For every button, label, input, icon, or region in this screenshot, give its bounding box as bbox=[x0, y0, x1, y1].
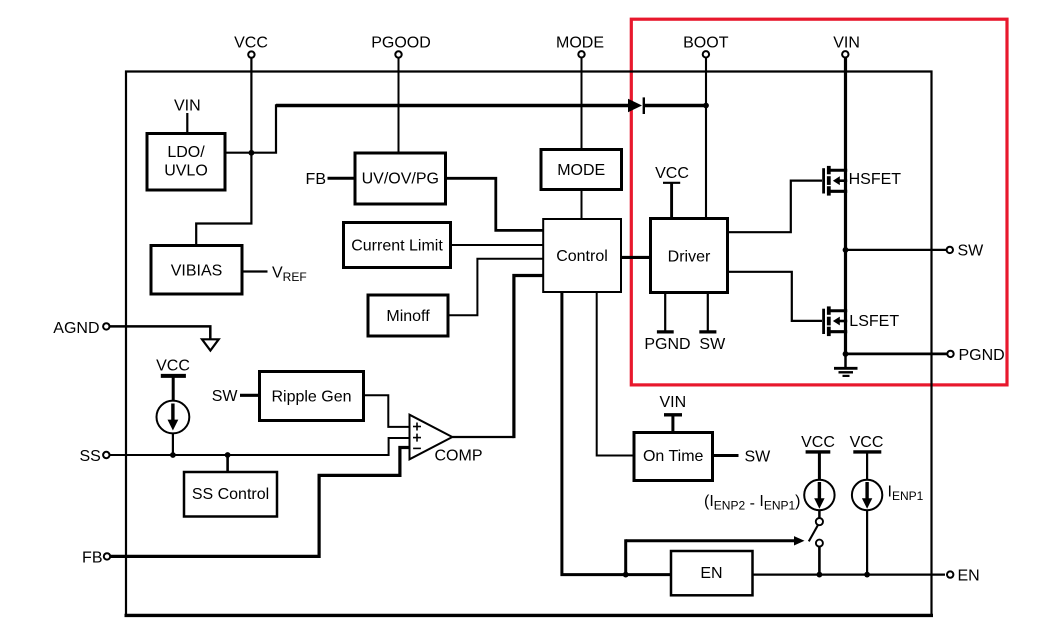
wire PGND node to PGND terminal bbox=[846, 352, 948, 355]
ground arrow (open triangle) bbox=[202, 339, 219, 350]
junction EN-input/arrow bbox=[623, 572, 629, 578]
junction diode/BOOT bbox=[703, 103, 709, 109]
pin PGND stub under Driver bbox=[644, 293, 690, 354]
svg-text:VIN: VIN bbox=[833, 35, 860, 52]
svg-text:SW: SW bbox=[699, 336, 726, 353]
svg-text:VCC: VCC bbox=[850, 434, 884, 451]
block VIBIAS bbox=[151, 246, 242, 295]
wire AGND to analog ground arrow bbox=[110, 326, 211, 339]
wire VCC vertical down to junction and VIBIAS elbow bbox=[196, 58, 251, 245]
svg-text:HSFET: HSFET bbox=[849, 171, 902, 188]
terminal PGOOD (top) bbox=[371, 35, 431, 58]
red highlight box (power stage) bbox=[631, 19, 1007, 385]
node VREF label bbox=[272, 265, 307, 285]
terminal AGND (left) bbox=[53, 320, 109, 337]
svg-text:VREF: VREF bbox=[272, 265, 307, 285]
svg-text:Control: Control bbox=[556, 248, 608, 265]
svg-text:EN: EN bbox=[700, 565, 722, 582]
transistor LSFET bbox=[824, 306, 900, 336]
terminal BOOT (top) bbox=[683, 35, 729, 58]
wire SS Control stub bbox=[226, 455, 229, 472]
wire MODE box to Control bbox=[581, 190, 583, 220]
svg-text:(IENP2 - IENP1): (IENP2 - IENP1) bbox=[704, 493, 801, 513]
svg-text:LDO/: LDO/ bbox=[167, 144, 205, 161]
block Current Limit bbox=[344, 223, 451, 268]
svg-text:FB: FB bbox=[306, 171, 326, 188]
wire SS line to comparator plus input bbox=[110, 438, 410, 455]
junction SW node bbox=[843, 247, 849, 253]
wire UV/OV/PG output to Control bbox=[446, 178, 544, 230]
svg-text:BOOT: BOOT bbox=[683, 35, 729, 52]
switch S1 bbox=[809, 510, 823, 575]
terminal MODE (top) bbox=[556, 35, 604, 58]
node VCC label above Driver bbox=[655, 165, 689, 219]
block LDO/UVLO bbox=[147, 134, 225, 191]
block Minoff bbox=[368, 295, 448, 336]
svg-text:UVLO: UVLO bbox=[164, 163, 208, 180]
svg-text:VCC: VCC bbox=[234, 35, 268, 52]
svg-text:VIBIAS: VIBIAS bbox=[171, 263, 223, 280]
svg-text:SS: SS bbox=[79, 448, 100, 465]
transistor HSFET bbox=[824, 166, 902, 196]
label (IENP2 - IENP1) bbox=[704, 493, 801, 513]
wire Driver to HSFET gate bbox=[728, 181, 823, 233]
wire VIBIAS to VREF bbox=[242, 270, 268, 272]
svg-text:MODE: MODE bbox=[557, 162, 605, 179]
terminal EN (right) bbox=[947, 567, 980, 584]
block EN bbox=[671, 551, 753, 595]
svg-text:Ripple Gen: Ripple Gen bbox=[271, 389, 351, 406]
svg-text:FB: FB bbox=[82, 550, 102, 567]
wire comparator output to Control bbox=[452, 276, 543, 439]
svg-text:SW: SW bbox=[745, 449, 772, 466]
junction SS/SS-Control bbox=[225, 452, 231, 458]
svg-text:VCC: VCC bbox=[156, 358, 190, 375]
terminal PGND (right) bbox=[947, 347, 1004, 364]
wire Control bottom to EN input bbox=[562, 292, 671, 575]
wire EN output to EN terminal bbox=[753, 573, 946, 575]
wire thick top bus to diode bbox=[276, 104, 631, 108]
block Control bbox=[543, 219, 621, 292]
node VCC label above IENP1 current source bbox=[850, 434, 884, 480]
svg-text:VIN: VIN bbox=[174, 98, 201, 115]
wire On Time output to SW label bbox=[713, 449, 772, 466]
label IENP1 bbox=[888, 484, 924, 504]
wire Minoff to Control bbox=[448, 259, 543, 316]
diode D1 (boot diode) bbox=[628, 97, 706, 114]
terminal VCC (top) bbox=[234, 35, 268, 58]
IC outer boundary box bbox=[125, 71, 934, 617]
block SS Control bbox=[184, 472, 277, 517]
svg-text:LSFET: LSFET bbox=[849, 313, 899, 330]
svg-text:Minoff: Minoff bbox=[386, 308, 430, 325]
ground symbol under LSFET bbox=[834, 354, 858, 376]
op-amp COMP comparator bbox=[410, 415, 483, 465]
wire PGOOD to UV/OV/PG bbox=[398, 58, 400, 153]
node VIN label above On Time bbox=[659, 394, 686, 433]
svg-text:PGND: PGND bbox=[644, 336, 690, 353]
wire Driver to LSFET gate bbox=[728, 272, 823, 321]
svg-text:PGND: PGND bbox=[959, 347, 1005, 364]
svg-text:VIN: VIN bbox=[659, 394, 686, 411]
pin SW stub under Driver bbox=[699, 293, 726, 354]
svg-text:VCC: VCC bbox=[655, 165, 689, 182]
svg-text:On Time: On Time bbox=[643, 448, 704, 465]
wire Ripple Gen to comparator plus input bbox=[364, 395, 410, 427]
svg-text:SW: SW bbox=[212, 388, 239, 405]
node VIN label above LDO bbox=[174, 98, 201, 134]
svg-text:VCC: VCC bbox=[801, 434, 835, 451]
svg-text:SS Control: SS Control bbox=[192, 486, 269, 503]
wire LDO output to VCC rail and top bus elbow bbox=[225, 105, 631, 152]
current source ISS (circle with down arrow) bbox=[157, 401, 190, 455]
current source IENP1 bbox=[852, 480, 882, 575]
wire Current Limit to Control bbox=[451, 244, 544, 246]
terminal FB (left bottom) bbox=[82, 550, 110, 567]
junction IENP1/EN-line bbox=[864, 572, 870, 578]
block On Time bbox=[634, 433, 713, 481]
wire Control bottom to On Time input bbox=[597, 292, 634, 456]
current source (IENP2-IENP1) bbox=[804, 480, 834, 510]
wire MODE terminal to MODE box bbox=[581, 58, 583, 150]
junction PGND node bbox=[843, 351, 849, 357]
svg-text:UV/OV/PG: UV/OV/PG bbox=[362, 171, 439, 188]
block Ripple Gen bbox=[260, 372, 364, 421]
junction VCC/LDO bbox=[249, 150, 255, 156]
svg-text:COMP: COMP bbox=[435, 448, 483, 465]
svg-text:SW: SW bbox=[958, 243, 985, 260]
terminal SW (right) bbox=[947, 243, 985, 260]
block MODE bbox=[541, 150, 622, 190]
svg-text:PGOOD: PGOOD bbox=[371, 35, 431, 52]
terminal SS (left) bbox=[79, 448, 109, 465]
svg-text:IENP1: IENP1 bbox=[888, 484, 924, 504]
node FB label into UV/OV/PG bbox=[306, 171, 355, 188]
block Driver bbox=[651, 219, 728, 293]
svg-text:Driver: Driver bbox=[668, 249, 711, 266]
block UV/OV/PG bbox=[355, 153, 446, 204]
wire BOOT vertical down to Driver bbox=[705, 58, 707, 219]
svg-text:MODE: MODE bbox=[556, 35, 604, 52]
svg-text:Current Limit: Current Limit bbox=[351, 238, 443, 255]
wire Control to Driver bbox=[621, 256, 651, 259]
node SW label into Ripple Gen bbox=[212, 388, 260, 405]
wire SW node to SW terminal bbox=[846, 249, 947, 251]
svg-text:AGND: AGND bbox=[53, 320, 99, 337]
wire EN drive arrow to switch bbox=[626, 536, 805, 575]
junction SS/current-source bbox=[170, 452, 176, 458]
svg-text:EN: EN bbox=[958, 567, 980, 584]
wire VIN main power rail down to PGND node bbox=[844, 58, 847, 354]
node VCC label above SS current source bbox=[156, 358, 190, 401]
junction switch/EN-line bbox=[817, 572, 823, 578]
terminal VIN (top) bbox=[833, 35, 860, 58]
wire FB to comparator minus input bbox=[111, 448, 410, 557]
node VCC label above switch current source bbox=[801, 434, 835, 480]
